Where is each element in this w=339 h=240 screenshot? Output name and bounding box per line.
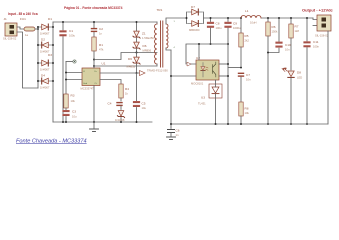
svg-text:D7: D7 [191, 5, 195, 9]
net flag vcc [140, 71, 146, 76]
svg-text:TL431: TL431 [198, 102, 206, 106]
wire U1 top pin [93, 66, 95, 68]
TL431 U3 [198, 80, 222, 124]
node U2 anode [198, 43, 200, 45]
svg-text:C4: C4 [108, 102, 112, 106]
wire U2 right top [219, 63, 228, 65]
primary winding [156, 22, 158, 24]
node D2 right [52, 44, 54, 46]
node C10 fb [267, 52, 269, 54]
node U1 gnd [93, 121, 95, 123]
svg-text:TR1: TR1 [157, 8, 163, 12]
diode D6 [127, 53, 141, 74]
wire U1 ct pin to R4 [100, 80, 121, 86]
node U1 left pin2 [65, 79, 67, 81]
svg-text:TRIAD-FS12-090: TRIAD-FS12-090 [147, 69, 168, 73]
svg-text:10u: 10u [72, 114, 77, 118]
svg-text:1.5KE250: 1.5KE250 [142, 36, 154, 40]
node R6 top [267, 17, 269, 19]
svg-text:1N4148: 1N4148 [115, 118, 125, 122]
node vcc-junction [136, 72, 138, 74]
capacitor C9 [224, 18, 241, 124]
wire U2 right bottom [219, 75, 228, 77]
wire U2 collector to C7 [228, 67, 241, 69]
capacitor C7 [238, 73, 251, 102]
diode D2 [38, 38, 53, 54]
capacitor C8 [207, 18, 222, 44]
capacitor C11 [303, 18, 319, 124]
svg-text:MR852: MR852 [127, 65, 136, 69]
svg-text:R3: R3 [71, 94, 75, 98]
svg-text:Output - +12Vdc: Output - +12Vdc [302, 8, 334, 13]
node C1 bottom [62, 121, 64, 123]
svg-text:SIL-156-02: SIL-156-02 [3, 37, 17, 41]
svg-text:C9: C9 [233, 22, 237, 26]
svg-text:1000u: 1000u [233, 26, 241, 30]
svg-text:Dr: Dr [95, 70, 98, 73]
svg-text:C7: C7 [246, 73, 250, 77]
wire J1 pin2 down [17, 32, 38, 88]
node D2 left [37, 44, 39, 46]
zener D7 [115, 106, 125, 122]
wire J1 pin1 to fuse [17, 27, 24, 29]
diode D1 [38, 17, 53, 36]
svg-text:1k8: 1k8 [295, 29, 300, 33]
svg-text:R5: R5 [245, 34, 249, 38]
svg-text:C8: C8 [216, 22, 220, 26]
node R4 chain gnd [120, 121, 122, 123]
wire top rail primary [53, 21, 157, 23]
svg-text:Input - 85 a 240 Vca: Input - 85 a 240 Vca [8, 12, 38, 16]
svg-text:Fonte Chaveada - MC33374: Fonte Chaveada - MC33374 [16, 138, 87, 144]
node snubber-aux [136, 52, 138, 54]
svg-text:10u: 10u [142, 106, 147, 110]
resistor R6 [266, 18, 278, 124]
wire aux tap [94, 53, 157, 60]
node C11 gnd [306, 123, 308, 125]
svg-text:10n: 10n [246, 77, 251, 81]
resistor R5 [239, 18, 250, 66]
node C10 top [278, 17, 280, 19]
capacitor C2 [91, 22, 103, 37]
svg-text:1n: 1n [99, 31, 102, 35]
connector J2 [313, 15, 331, 38]
resistor R7 [289, 18, 300, 70]
wire bottom rail primary [53, 121, 152, 123]
node C7 top [240, 67, 242, 69]
svg-text:R4: R4 [125, 87, 129, 91]
node U2 cathode [170, 75, 172, 77]
svg-text:D1: D1 [48, 17, 52, 21]
svg-text:L1: L1 [245, 9, 249, 13]
capacitor C6 [168, 124, 180, 137]
node C5 gnd [136, 121, 138, 123]
wire U1 bottom pin [93, 86, 95, 123]
wire primary bottom [94, 65, 157, 67]
wire fuse to bridge [35, 28, 37, 30]
svg-text:10k: 10k [245, 111, 250, 115]
svg-text:MOC8101: MOC8101 [191, 82, 204, 86]
capacitor C4 [108, 98, 123, 106]
svg-text:MC33374T: MC33374T [81, 86, 95, 90]
svg-text:R6: R6 [272, 25, 276, 29]
wire U2 anode top [198, 44, 200, 60]
node R8 gnd [240, 123, 242, 125]
transformer TR1 [147, 8, 187, 73]
fuse FU1 [20, 17, 35, 37]
svg-text:100u: 100u [216, 26, 222, 30]
capacitor C1 [59, 22, 75, 122]
zener Z1 [133, 22, 154, 42]
wire J2 return [327, 31, 329, 124]
diode D5 [133, 42, 152, 52]
wire U2 pin stubs left [171, 64, 196, 76]
wire U1 vcc pin [100, 72, 139, 74]
diode D3 [38, 53, 53, 72]
capacitor C3 [62, 110, 77, 123]
svg-text:47k: 47k [99, 47, 104, 51]
svg-text:100n: 100n [313, 44, 319, 48]
svg-text:FU1: FU1 [20, 17, 26, 21]
diode D4 [38, 74, 53, 90]
svg-text:C2: C2 [99, 27, 103, 31]
node D4 left [37, 80, 39, 82]
net flag fb [187, 62, 191, 66]
svg-text:R7: R7 [295, 25, 299, 29]
node D8 gnd [290, 123, 292, 125]
svg-text:1n: 1n [176, 133, 179, 137]
rectifier D7 dual [187, 5, 204, 32]
capacitor C5 [133, 73, 147, 122]
svg-text:1N4007: 1N4007 [40, 32, 50, 36]
svg-text:1N4007: 1N4007 [40, 68, 50, 72]
svg-text:U1: U1 [102, 62, 106, 66]
resistor R1 [92, 37, 104, 68]
node U2 emitter [227, 75, 229, 77]
node D4 right [52, 80, 54, 82]
ground secondary [167, 137, 176, 140]
node C9 gnd [227, 123, 229, 125]
node D1 left [37, 26, 39, 28]
node C6 [170, 123, 172, 125]
node U3 gnd [215, 123, 217, 125]
IC U1 MC33374 [81, 62, 106, 91]
wire right bus [52, 22, 54, 122]
svg-text:MBR360: MBR360 [189, 28, 200, 32]
testpoint node [66, 60, 76, 63]
node C9 top [227, 17, 229, 19]
node D3 left [37, 62, 39, 64]
svg-text:LED: LED [297, 76, 302, 80]
node U2 collector [227, 63, 229, 65]
inductor L1 [241, 9, 261, 25]
wire U1 left pins [66, 62, 82, 95]
node drain-59.5 [93, 59, 95, 61]
wire secondary return [170, 50, 172, 124]
svg-text:U3: U3 [201, 96, 205, 100]
resistor R8 [239, 102, 250, 124]
node U1 left pin1 [65, 72, 67, 74]
capacitor C10 [268, 18, 291, 53]
node R6 gnd [267, 123, 269, 125]
svg-text:C5: C5 [142, 102, 146, 106]
node Z1 top [136, 21, 138, 23]
svg-text:10uH: 10uH [250, 21, 256, 25]
core [161, 21, 163, 67]
node rect in [186, 17, 188, 19]
svg-text:1a: 1a [25, 33, 28, 37]
svg-text:C10: C10 [285, 43, 291, 47]
node C9 fb [227, 43, 229, 45]
svg-text:100u: 100u [69, 33, 75, 37]
node C11 top [306, 17, 308, 19]
resistor R4 [119, 84, 129, 98]
svg-text:1N4007: 1N4007 [40, 86, 50, 90]
svg-text:150k: 150k [272, 29, 278, 33]
secondary winding [166, 24, 168, 48]
node D3 right [52, 62, 54, 64]
svg-text:D3: D3 [48, 53, 52, 57]
node R7 top [290, 17, 292, 19]
svg-text:C11: C11 [313, 40, 319, 44]
wire secondary top rail [204, 17, 314, 19]
svg-text:J1: J1 [4, 17, 8, 21]
ground primary [90, 122, 99, 132]
svg-text:D2: D2 [41, 38, 45, 42]
node R3C3 gnd [65, 121, 67, 123]
optocoupler U2 [191, 56, 219, 86]
svg-text:R8: R8 [245, 107, 249, 111]
node C8 fb [210, 43, 212, 45]
wire feedback [186, 44, 228, 64]
svg-text:D6: D6 [143, 44, 147, 48]
svg-text:R1: R1 [99, 43, 103, 47]
svg-text:10n: 10n [285, 47, 290, 51]
node C1 top [62, 21, 64, 23]
svg-text:Página 01 - Fonte chaveada MC3: Página 01 - Fonte chaveada MC33374 [64, 6, 123, 10]
node drain-66 [93, 65, 95, 67]
node C2 top [93, 21, 95, 23]
connector J1 [3, 17, 17, 41]
svg-text:Z1: Z1 [142, 32, 146, 36]
LED D8 [282, 68, 302, 125]
svg-text:C3: C3 [72, 110, 76, 114]
svg-text:C6: C6 [176, 129, 180, 133]
svg-text:D4: D4 [41, 74, 45, 78]
svg-text:SIL-156-02: SIL-156-02 [315, 34, 329, 38]
svg-text:MR856: MR856 [143, 48, 152, 52]
wire bottom rail secondary [171, 123, 328, 125]
svg-text:10k: 10k [71, 99, 76, 103]
node D1 right [52, 26, 54, 28]
svg-text:U2: U2 [196, 56, 200, 60]
node R5 top [240, 17, 242, 19]
svg-text:D8: D8 [297, 71, 301, 75]
node C8 top [210, 17, 212, 19]
svg-text:2k2: 2k2 [245, 38, 250, 42]
resistor R3 [64, 94, 76, 111]
svg-text:C1: C1 [69, 29, 73, 33]
svg-text:D6: D6 [128, 57, 132, 61]
wire left bus [37, 27, 39, 88]
node fuse-bus junction [37, 28, 39, 30]
